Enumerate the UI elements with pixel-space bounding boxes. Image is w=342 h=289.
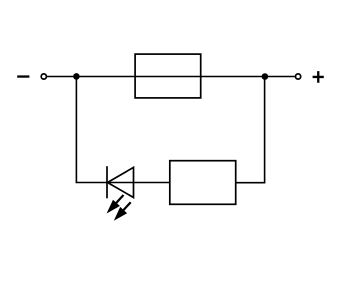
LED D1 light arrow 1 [107,195,124,214]
wire right vertical [264,77,266,184]
wire left vertical [75,76,77,182]
terminal label plus [313,71,324,83]
terminal label minus [17,75,29,77]
LED D1 light arrow 2 [114,202,131,221]
terminal circle right [296,74,301,79]
LED D1 cathode bar [106,166,108,198]
wire bottom left [76,182,170,184]
fuse F1 [135,54,201,98]
terminal circle left [41,74,46,79]
node junction left [73,73,80,80]
node junction right [262,73,269,80]
LED D1 triangle [108,167,134,197]
wire bottom right [236,182,265,184]
wire top [47,76,295,78]
resistor R1 [170,161,236,205]
